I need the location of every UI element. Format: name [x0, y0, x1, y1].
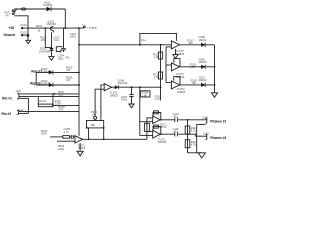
wire B plus stub	[140, 134, 153, 136]
svg-text:Ground: Ground	[4, 33, 16, 37]
wire box drop	[103, 128, 105, 139]
feedback U3a loop	[153, 112, 161, 119]
wire top rail y9	[14, 8, 65, 10]
wire A plus stub	[140, 121, 153, 123]
svg-text:R101: R101	[36, 24, 43, 28]
diode D101	[47, 7, 51, 12]
svg-text:+ supply: + supply	[87, 26, 98, 30]
svg-text:4.7k: 4.7k	[191, 129, 197, 133]
op-amp U1c triangle	[171, 81, 179, 89]
op-amp U3a triangle	[153, 116, 161, 124]
svg-text:10u: 10u	[54, 38, 59, 42]
node row3 right	[214, 84, 216, 86]
svg-text:100u: 100u	[121, 98, 127, 102]
resistor R110 box 15k	[87, 121, 104, 128]
svg-text:47k: 47k	[66, 78, 71, 82]
capacitor C114 body	[175, 118, 178, 122]
jack Phones1	[205, 118, 206, 123]
feedback box U1c	[174, 77, 180, 85]
wire B minus stub	[147, 131, 153, 133]
op-amp U1b triangle	[171, 63, 179, 71]
svg-text:1M0: 1M0	[41, 132, 47, 136]
switch S101	[12, 9, 16, 15]
wire main rail y28	[22, 27, 83, 29]
wire Rin2 shield y112.9	[19, 112, 29, 114]
svg-text:U1a: U1a	[141, 38, 146, 42]
resistor R109 box	[140, 91, 150, 97]
ground sym right bus	[211, 93, 217, 97]
box wire D105	[56, 47, 62, 52]
diode D108	[115, 85, 119, 89]
resistor R113 box	[144, 123, 149, 131]
svg-text:4.7k: 4.7k	[155, 97, 161, 101]
fuse F101 body	[21, 8, 25, 10]
node box br	[103, 127, 105, 129]
node U3a out	[160, 119, 162, 121]
svg-text:Phones #1: Phones #1	[210, 120, 226, 124]
svg-text:1.3k: 1.3k	[154, 55, 160, 59]
feedback U3b loop	[153, 127, 161, 135]
wire bias vertical x139.8	[139, 87, 141, 135]
jack Rin1	[17, 93, 19, 99]
diode D105 small	[60, 50, 62, 52]
svg-text:4A: 4A	[6, 13, 9, 17]
wire zener to ground	[27, 28, 29, 40]
svg-text:C102: C102	[20, 23, 27, 27]
wire row2 out	[180, 66, 215, 68]
node x54.4	[54, 93, 56, 95]
wire D101 drop	[64, 9, 66, 28]
jack Phones2	[205, 134, 206, 139]
capacitor C115 body	[175, 132, 178, 136]
svg-text:2N3053: 2N3053	[47, 22, 57, 26]
ground sym output	[198, 153, 205, 158]
wire A minus stub	[147, 117, 153, 119]
feedback U2 wire	[88, 128, 90, 139]
wire opamp minus feed	[50, 136, 63, 138]
node rail-R102	[44, 27, 46, 29]
wire A out y119.3	[160, 119, 206, 121]
feedback U3a resistor box	[154, 111, 159, 114]
node B cross	[187, 133, 189, 135]
wire plus input U2	[57, 140, 75, 142]
wire row y85	[36, 84, 79, 86]
svg-text:4.7u: 4.7u	[64, 130, 70, 134]
op-amp U1a triangle	[171, 41, 179, 49]
node row2 right	[214, 66, 216, 68]
ground sym row1	[173, 49, 178, 58]
pot P101	[94, 116, 97, 120]
op-amp U4 minus feed	[101, 85, 104, 121]
svg-text:4.7k: 4.7k	[191, 143, 197, 147]
svg-text:Rin #2: Rin #2	[2, 112, 12, 116]
wire row1 out	[180, 44, 215, 46]
svg-text:1.9k: 1.9k	[142, 93, 148, 97]
node branch x160.5	[160, 44, 162, 46]
svg-text:100u: 100u	[58, 57, 64, 61]
ground sym C107	[129, 104, 134, 108]
wire R104 input tap	[37, 96, 39, 104]
svg-text:1N914: 1N914	[199, 38, 207, 42]
wire B out y133.5	[160, 134, 206, 136]
wire cap to opamp	[73, 136, 75, 138]
wire vert x187.5	[187, 120, 189, 153]
node rail x65	[64, 27, 66, 29]
node output join	[160, 86, 162, 88]
node U3b out	[160, 133, 162, 135]
resistor R115 box on bus	[158, 52, 162, 59]
wire bus x160.5	[160, 45, 162, 101]
ground sym input	[26, 40, 31, 43]
node branch start	[78, 44, 80, 46]
wire row3 plus stub	[166, 81, 171, 83]
svg-text:100u: 100u	[70, 35, 76, 39]
svg-text:10k: 10k	[92, 113, 97, 117]
wire Rin1 shield y97.6	[19, 98, 29, 113]
wire row y104.6	[53, 104, 79, 106]
svg-text:150: 150	[191, 81, 196, 85]
node feedback U2	[88, 139, 90, 141]
svg-text:1.3k: 1.3k	[154, 75, 160, 79]
diode D106	[201, 65, 205, 69]
wire supply branch y44.8	[79, 44, 171, 46]
op-amp U3b triangle	[153, 130, 161, 138]
svg-text:LM833: LM833	[110, 93, 119, 97]
ground sym zener	[49, 57, 54, 61]
wire R102 vertical	[45, 28, 51, 47]
node loop leg	[139, 44, 141, 46]
feedback U3b resistor box	[154, 125, 159, 128]
svg-text:1N4748A: 1N4748A	[39, 49, 50, 53]
wire row y72.4	[36, 71, 79, 73]
svg-text:1N914: 1N914	[199, 60, 207, 64]
svg-text:150: 150	[188, 41, 193, 45]
wire Rin1 signal y95.7	[19, 95, 79, 97]
ground sym U2	[77, 151, 83, 156]
wire A minus vertical	[146, 118, 148, 140]
diode D107	[201, 83, 205, 87]
node bus y72.4	[78, 72, 80, 74]
op-amp U2 triangle	[75, 136, 83, 143]
wire U4 output	[112, 86, 161, 88]
wire row y93.9	[19, 93, 79, 95]
svg-text:47u: 47u	[65, 56, 70, 60]
node A jack	[187, 119, 189, 121]
node bottom row	[103, 138, 105, 140]
svg-text:C103: C103	[20, 30, 27, 34]
wire U2 ground drop	[79, 143, 81, 151]
node rail x79	[78, 27, 80, 29]
svg-text:1N4001: 1N4001	[43, 3, 53, 7]
svg-text:J101: J101	[202, 116, 208, 120]
capacitor C107 body	[129, 95, 134, 104]
svg-text:Phones #2: Phones #2	[210, 136, 226, 140]
wire Rin2 signal y110.9	[19, 110, 79, 112]
svg-text:BR14: BR14	[78, 146, 85, 150]
op-amp U4 triangle	[104, 84, 111, 91]
wire jack1 sleeve return	[197, 125, 206, 153]
svg-text:100k: 100k	[58, 147, 64, 151]
wire Q101 base drop	[51, 32, 53, 48]
zener D102 small	[27, 34, 29, 37]
node x131.5	[131, 86, 133, 88]
capacitor C102 drop	[63, 28, 65, 48]
resistor R114 box	[185, 126, 190, 134]
wire row1 plus stub	[166, 46, 171, 48]
feedback loop U1a big	[140, 33, 177, 44]
node x139.8 bias	[139, 86, 141, 88]
wire right bus x214.5	[214, 45, 216, 93]
wire rep post	[35, 72, 37, 85]
wire bottom row y138.4	[83, 138, 147, 140]
node bus y85	[78, 84, 80, 86]
diode D105	[201, 43, 205, 47]
diode D104	[49, 83, 53, 87]
wire ground lead	[22, 34, 28, 36]
svg-text:47k: 47k	[66, 68, 71, 72]
node box bl	[86, 127, 88, 129]
svg-text:1378: 1378	[55, 101, 61, 105]
svg-text:LM833: LM833	[177, 90, 186, 94]
wire row3 out	[180, 84, 215, 86]
capacitor C106 body	[71, 135, 73, 139]
resistor R113 body	[63, 136, 70, 139]
wire zener drop	[51, 51, 53, 57]
resistor R104 body	[38, 104, 53, 107]
resistor R116 box on bus	[158, 72, 162, 79]
wire x52.9 drop	[52, 94, 54, 106]
wire bus x166	[165, 47, 167, 83]
svg-text:Rin #1: Rin #1	[2, 96, 12, 100]
jack Rin2	[17, 110, 19, 114]
op-amp U4 plus feed	[95, 89, 104, 116]
svg-text:150: 150	[190, 65, 195, 69]
feedback box U1b	[174, 59, 180, 67]
svg-text:BD139: BD139	[158, 140, 167, 144]
wire row2 plus stub	[166, 64, 171, 66]
wire main bus x79	[78, 28, 80, 136]
wire fuse lower	[14, 16, 28, 28]
svg-text:+18: +18	[9, 26, 15, 30]
capacitor C102 body	[61, 48, 66, 52]
zener D102	[49, 48, 54, 51]
terminal + supply	[83, 26, 85, 28]
node x52.9 low	[52, 105, 54, 107]
svg-text:R104: R104	[39, 99, 46, 103]
svg-text:470: 470	[41, 38, 46, 42]
wire bottom ground row	[188, 152, 202, 154]
resistor R115 box	[185, 140, 190, 148]
svg-text:1N4148: 1N4148	[118, 81, 128, 85]
diode D103	[49, 70, 53, 74]
transistor Q101	[51, 26, 54, 33]
svg-text:15k: 15k	[91, 123, 96, 127]
svg-text:1N914: 1N914	[199, 78, 207, 82]
svg-text:J102: J102	[15, 89, 21, 93]
capacitor C107 drop	[131, 87, 133, 94]
